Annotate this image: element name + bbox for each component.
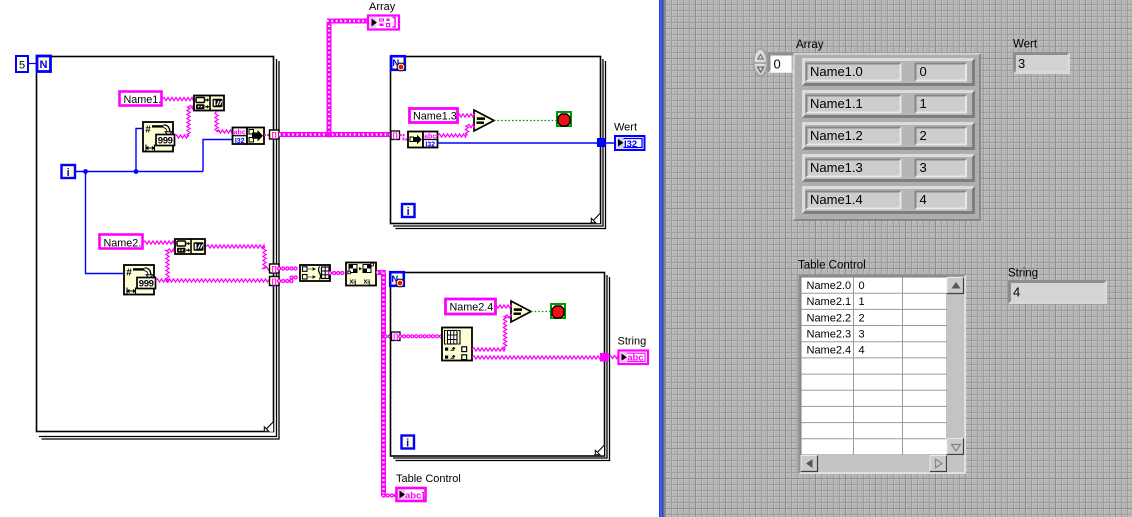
stop terminal loop3 [551, 304, 565, 318]
svg-text:[]: [] [272, 264, 277, 273]
string constant Name1. [120, 92, 162, 107]
2d string array wire transpose down to table control [377, 273, 397, 496]
svg-text:i: i [67, 167, 70, 179]
wire tunnel3 to index array [400, 334, 442, 338]
svg-text:Wert: Wert [1013, 39, 1038, 51]
svg-text:999: 999 [158, 135, 173, 146]
wire concat2 to tunnel B [206, 245, 270, 270]
branch into loop3 tunnel [386, 334, 393, 338]
svg-text:1: 1 [920, 96, 927, 111]
array container frame [794, 54, 980, 220]
table white area with grid [801, 277, 947, 455]
svg-text:5: 5 [19, 60, 25, 72]
svg-text:I32: I32 [235, 138, 245, 145]
array index display [768, 53, 797, 74]
blue wire i fanout [76, 129, 232, 274]
svg-text:4: 4 [859, 345, 865, 357]
svg-text:i: i [406, 438, 409, 450]
svg-text:Table Control: Table Control [798, 260, 866, 272]
bundle icon [233, 128, 265, 146]
loop count terminal N [37, 56, 51, 72]
build array icon [300, 265, 330, 281]
svg-text:999: 999 [139, 278, 154, 289]
svg-text:abc: abc [424, 133, 436, 140]
table control frame [799, 275, 967, 475]
svg-text:xij: xij [364, 279, 371, 286]
svg-text:1: 1 [859, 296, 865, 308]
front panel grid background [666, 0, 1132, 517]
svg-text:String: String [618, 336, 647, 348]
block diagram white background [0, 0, 659, 517]
tunnel loop3 left (indexing in) [392, 332, 401, 341]
svg-text:4: 4 [920, 192, 927, 207]
wire unbundle abc to equal [438, 124, 475, 137]
array element row 4 (cluster) [802, 186, 975, 214]
string constant Name2. [100, 235, 143, 250]
svg-text:0: 0 [920, 64, 927, 79]
wire Name1 to concat [162, 97, 193, 100]
tunnel B (string array out) [270, 264, 280, 273]
svg-text:Name1.1: Name1.1 [810, 96, 863, 111]
svg-text:xij: xij [350, 279, 357, 286]
svg-text:[]: [] [393, 332, 398, 341]
concatenate strings icon (top) [194, 96, 224, 111]
wire Name2 to concat2 [143, 241, 174, 244]
svg-text:Array: Array [369, 1, 396, 13]
svg-text:3: 3 [1018, 56, 1025, 71]
Array indicator terminal [368, 16, 399, 30]
conditional N terminal loop3 [390, 272, 404, 287]
svg-text:4: 4 [1013, 285, 1020, 300]
wire index array out1 to equal2 [472, 315, 511, 351]
svg-text:Name1.4: Name1.4 [810, 192, 863, 207]
for-loop 2 border [391, 57, 606, 229]
svg-text:3: 3 [920, 160, 927, 175]
svg-text:Array: Array [796, 39, 824, 51]
conditional N terminal loop2 [391, 56, 405, 71]
svg-text:Table Control: Table Control [396, 473, 461, 485]
string indicator terminal abc [619, 351, 649, 365]
svg-text:Name2.4: Name2.4 [807, 345, 852, 357]
I32 indicator terminal Wert [615, 136, 645, 150]
svg-text:abc: abc [627, 353, 643, 364]
wire index array out2 to string tunnel [472, 356, 600, 359]
stop terminal loop2 [557, 112, 571, 126]
svg-text:[]: [] [272, 130, 277, 139]
tunnel loop2 right (blue) [597, 138, 606, 147]
window divider blue bar [659, 0, 666, 517]
for-loop 3 border [391, 273, 610, 461]
svg-text:abc: abc [234, 130, 246, 137]
svg-text:[]: [] [393, 131, 398, 140]
array element row 0 (cluster) [802, 58, 975, 86]
String indicator (panel) [1008, 280, 1107, 304]
numeric constant 5 [16, 56, 28, 72]
string-array wires tunnels B,C to build array [279, 269, 299, 282]
tunnel A (cluster out) [270, 130, 280, 139]
for-loop 1 border [37, 57, 280, 440]
wire build array to transpose [330, 271, 346, 275]
svg-text:Name1.0: Name1.0 [810, 64, 863, 79]
svg-text:I32: I32 [624, 139, 637, 150]
cluster-array wire tunnelA to junction to loop2 [279, 21, 391, 137]
boolean wire equal to stop [494, 120, 556, 122]
svg-text:#: # [126, 268, 132, 279]
svg-text:Wert: Wert [614, 122, 637, 134]
iteration terminal i loop3 [402, 436, 415, 450]
svg-text:Name2.0: Name2.0 [807, 280, 852, 292]
svg-text:I32: I32 [425, 142, 435, 149]
svg-text:0: 0 [859, 280, 865, 292]
equal? comparison loop2 [474, 110, 494, 131]
wire Name2.4 to equal2 [494, 305, 511, 308]
string constant Name1.3 [410, 109, 458, 123]
equal? comparison loop3 [511, 301, 531, 322]
iteration terminal i loop1 [62, 165, 76, 179]
tunnel C (string array out) [270, 277, 280, 286]
svg-text:i: i [407, 206, 410, 218]
number-to-string icon 999 (top) [143, 122, 175, 152]
svg-text:#: # [145, 125, 151, 136]
svg-text:2: 2 [859, 312, 865, 324]
svg-text:Name1.3: Name1.3 [413, 111, 457, 123]
Wert numeric indicator [1013, 52, 1070, 74]
svg-text:Name2.2: Name2.2 [807, 312, 852, 324]
wire 999top to concat [175, 105, 194, 138]
number-to-string icon 999 (bottom) [124, 265, 156, 295]
svg-text:Name1.3: Name1.3 [810, 160, 863, 175]
wire 999bottom to tunnel C with branch up to concat2 [156, 249, 271, 282]
boolean wire equal2 to stop2 [531, 311, 550, 313]
table horizontal scrollbar [801, 455, 964, 472]
Table Control indicator terminal [397, 488, 426, 502]
svg-text:[]: [] [272, 277, 277, 286]
table vertical scrollbar [947, 277, 964, 455]
svg-text:3: 3 [859, 329, 865, 341]
wire concat1 to bundle [215, 112, 232, 134]
wire tunnel to unbundle (cluster) [400, 135, 409, 140]
svg-text:Name2.3: Name2.3 [807, 329, 852, 341]
array index spinner [754, 49, 768, 76]
transpose 2d array icon [346, 263, 376, 286]
svg-text:Name2.: Name2. [104, 238, 142, 250]
svg-text:2: 2 [920, 128, 927, 143]
iteration terminal i loop2 [402, 204, 415, 218]
wire tunnel to String indicator [609, 355, 619, 358]
blue wire unbundle I32 to Wert [438, 142, 616, 144]
svg-text:Name1.: Name1. [124, 94, 162, 106]
index array icon [442, 328, 472, 361]
wire bundle to tunnel A [264, 134, 270, 136]
svg-text:0: 0 [774, 57, 781, 72]
wire 5 to N [28, 63, 37, 65]
svg-text:Name1.2: Name1.2 [810, 128, 863, 143]
array element row 2 (cluster) [802, 122, 975, 150]
svg-text:String: String [1008, 268, 1038, 280]
unbundle icon [408, 132, 438, 149]
string constant Name2.4 [446, 299, 496, 314]
tunnel loop3 right (magenta) [600, 353, 609, 362]
array element row 3 (cluster) [802, 154, 975, 182]
svg-text:Name2.4: Name2.4 [450, 302, 494, 314]
tunnel loop2 left (indexing in) [391, 131, 400, 140]
svg-text:Name2.1: Name2.1 [807, 296, 852, 308]
concatenate strings icon (bottom) [175, 239, 205, 254]
svg-text:abc]: abc] [405, 491, 425, 502]
wire Name1.3 to equal [457, 114, 474, 117]
array element row 1 (cluster) [802, 90, 975, 118]
svg-text:N: N [40, 59, 48, 71]
